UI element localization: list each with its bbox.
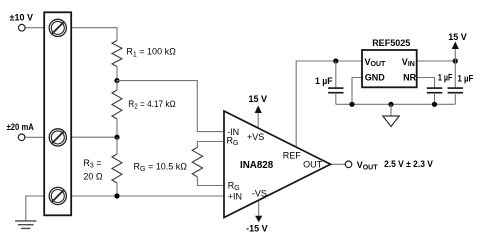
terminal ±10 V: [19, 24, 26, 31]
svg-text:1 µF: 1 µF: [315, 76, 333, 86]
svg-text:±20 mA: ±20 mA: [7, 122, 35, 132]
terminal VOUT: [345, 161, 352, 168]
node C (R3 / +IN junction): [114, 193, 119, 198]
wire: R2 bottom to node B: [116, 119, 118, 137]
resistor RG: [192, 147, 202, 176]
svg-text:1 µF: 1 µF: [438, 73, 453, 83]
wire: +VS stem: [257, 113, 259, 129]
wire: node A to -IN of U1: [117, 81, 225, 132]
+VS arrow to 15 V: [255, 106, 262, 114]
wire: block bottom to +IN of U1: [71, 195, 224, 197]
node H (C2 / rail junction): [432, 102, 437, 107]
wire: OUT to VOUT terminal: [331, 163, 346, 165]
svg-text:20 Ω: 20 Ω: [83, 172, 103, 182]
wire: ground rail: [336, 103, 456, 105]
capacitor C2 1uF: [427, 88, 442, 93]
wire: C2 to rail: [434, 93, 436, 105]
terminal ±20 mA: [18, 134, 25, 141]
wire: block to node B: [71, 136, 117, 138]
op-amp U1 INA828: [224, 111, 331, 218]
resistor R1: [112, 41, 122, 67]
svg-text:1 µF: 1 µF: [458, 74, 474, 84]
svg-text:GND: GND: [365, 73, 386, 83]
wire: 15V stem down to C3: [454, 48, 456, 88]
wire: C3 to rail: [454, 93, 456, 105]
wire: -VS stem: [258, 201, 260, 217]
wire: ±20 mA terminal to block: [25, 136, 44, 138]
wire: GND pin of REF5025: [352, 78, 363, 105]
wire: block to R1 top: [71, 28, 117, 41]
svg-text:+VS: +VS: [247, 132, 264, 142]
svg-text:INA828: INA828: [240, 160, 274, 171]
screw terminal middle: [49, 129, 66, 146]
svg-text:+IN: +IN: [228, 192, 242, 202]
wire: node A to R2 top: [116, 81, 118, 90]
terminal block J1: [44, 12, 71, 215]
node G (VIN / 15V junction): [453, 58, 458, 63]
screw terminal bottom: [49, 187, 66, 204]
ground (open triangle): [383, 116, 399, 127]
wire: C1 to ground rail: [335, 93, 337, 105]
svg-text:NR: NR: [403, 73, 416, 83]
svg-text:15 V: 15 V: [249, 94, 268, 104]
wire: NR pin to C2: [417, 78, 435, 88]
wire: block bottom to ground: [26, 196, 44, 221]
svg-text:±10 V: ±10 V: [10, 12, 33, 22]
wire: node B to R3 top: [116, 137, 118, 154]
svg-text:OUT: OUT: [303, 160, 323, 170]
wire: REF pin to reference rail: [296, 61, 363, 148]
resistor R2: [112, 90, 122, 119]
node E (GND / rail junction): [349, 102, 354, 107]
svg-text:2.5 V ± 2.3 V: 2.5 V ± 2.3 V: [384, 159, 433, 169]
resistor R3: [112, 154, 122, 183]
-VS arrow to -15 V: [255, 216, 262, 223]
wire: R3 bottom to node C: [116, 183, 118, 196]
wire: R1 bottom to node A: [116, 67, 118, 81]
capacitor C1 1uF: [328, 88, 343, 93]
svg-text:REF: REF: [283, 151, 302, 161]
node F (rail / ground symbol): [388, 102, 393, 107]
wire: node D down to C1: [335, 61, 337, 88]
capacitor C3 1uF: [448, 88, 463, 93]
svg-text:-15 V: -15 V: [246, 223, 268, 233]
screw terminal top: [49, 19, 66, 36]
wire: +10V terminal to block: [25, 27, 44, 29]
node D (REF5025 VOUT / C1 junction): [333, 58, 338, 63]
wire: RG top pin: [197, 142, 224, 148]
wire: ground symbol stem: [390, 104, 392, 116]
node A (R1/R2 junction): [114, 78, 119, 83]
REF5025 U2: [362, 50, 417, 87]
wire: RG bottom pin: [197, 177, 224, 186]
ground (earth): [15, 221, 36, 229]
15 V arrow (supply): [452, 42, 459, 50]
svg-text:-VS: -VS: [252, 188, 267, 198]
node B (R2/R3 junction): [114, 135, 119, 140]
svg-text:REF5025: REF5025: [372, 38, 410, 48]
svg-text:15 V: 15 V: [448, 32, 467, 42]
wire: VIN pin to 15 V: [417, 60, 456, 62]
